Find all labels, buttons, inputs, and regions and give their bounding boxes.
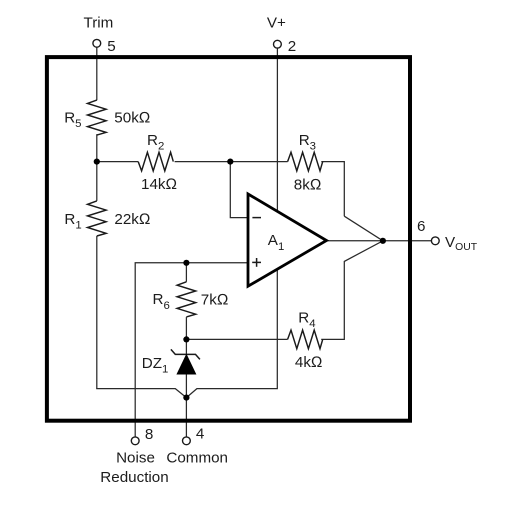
wire plus node to R6 top (185, 263, 187, 282)
svg-text:V+: V+ (267, 15, 286, 32)
wire R4 left lead to zener node (186, 338, 287, 340)
junction R6/DZ1/R4 node (183, 336, 189, 342)
svg-text:R2: R2 (147, 132, 164, 153)
wire zener node to cathode bar (185, 339, 187, 354)
IC package outline (47, 57, 410, 421)
svg-text:R1: R1 (64, 211, 81, 232)
svg-text:8: 8 (145, 426, 153, 443)
svg-text:2: 2 (288, 38, 296, 55)
resistor R6 (177, 282, 196, 317)
wire bottom bus left segment (96, 389, 186, 398)
pin 5 terminal (93, 39, 101, 47)
pin 6 terminal (431, 237, 439, 245)
wire zener anode to common node (185, 374, 187, 398)
junction noninverting/R6 node (183, 260, 189, 266)
svg-text:22kΩ: 22kΩ (114, 211, 150, 228)
svg-text:Trim: Trim (84, 15, 114, 32)
junction common node (183, 395, 189, 401)
junction node A (R5/R1/R2) (94, 159, 100, 165)
wire R6 bottom to zener node (185, 317, 187, 339)
resistor R1 (88, 201, 107, 236)
op-amp A1 (248, 194, 327, 286)
wire diagonal R3 to output node (344, 216, 383, 241)
pin 8 terminal (131, 437, 139, 445)
pin 4 terminal (183, 437, 191, 445)
svg-text:R3: R3 (299, 132, 316, 153)
svg-text:4: 4 (196, 426, 204, 443)
svg-text:R4: R4 (298, 310, 315, 331)
wire pin5 to R5 top (96, 47, 98, 100)
svg-text:Common: Common (166, 450, 228, 467)
wire R5 bottom to node A to R1 top (96, 134, 98, 201)
wire diagonal output node to R4 branch (321, 241, 383, 340)
svg-text:50kΩ: 50kΩ (114, 109, 150, 126)
svg-text:7kΩ: 7kΩ (201, 292, 229, 309)
wire R1 bottom down left rail (96, 236, 98, 389)
resistor R5 (88, 100, 107, 135)
wire bottom bus right segment to op-amp V- (186, 262, 277, 398)
svg-text:VOUT: VOUT (445, 234, 478, 253)
junction output node (380, 238, 386, 244)
resistor R3 (288, 152, 323, 171)
wire node A to R2 (97, 161, 138, 163)
junction node B (R2/R3/inverting input) (227, 159, 233, 165)
svg-text:5: 5 (107, 38, 115, 55)
svg-text:8kΩ: 8kΩ (294, 176, 322, 193)
wire noninverting input line (135, 263, 249, 437)
svg-text:DZ1: DZ1 (142, 355, 169, 376)
resistor R2 (138, 152, 173, 171)
pin 2 terminal (274, 40, 282, 48)
svg-text:4kΩ: 4kΩ (295, 354, 323, 371)
svg-text:R6: R6 (153, 291, 170, 312)
resistor R4 (288, 330, 323, 349)
wire common node to pin4 (185, 398, 187, 437)
svg-text:R5: R5 (64, 110, 81, 131)
svg-text:Noise: Noise (116, 450, 155, 467)
wire output node to pin6 (325, 240, 431, 242)
svg-text:14kΩ: 14kΩ (141, 176, 177, 193)
wire R2 to node B to R3 (175, 161, 288, 163)
svg-text:Reduction: Reduction (100, 469, 168, 486)
zener diode DZ1 (171, 349, 200, 374)
svg-text:6: 6 (417, 218, 425, 235)
wire node B to inverting input (230, 162, 249, 218)
wire R3 right lead to corner (321, 162, 344, 217)
wire V+ rail pin2 to op-amp (276, 48, 278, 218)
